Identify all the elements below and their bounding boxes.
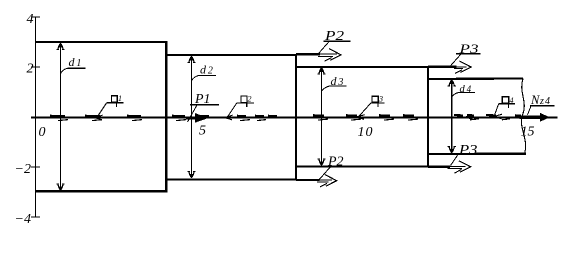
svg-text:−4: −4 bbox=[15, 212, 31, 227]
svg-text:4: 4 bbox=[27, 12, 34, 27]
svg-text:Nz4: Nz4 bbox=[530, 93, 551, 107]
svg-text:2: 2 bbox=[27, 62, 34, 77]
svg-text:5: 5 bbox=[199, 124, 206, 139]
svg-text:P3: P3 bbox=[458, 41, 479, 56]
svg-text:d2: d2 bbox=[200, 63, 214, 77]
svg-text:P2: P2 bbox=[327, 154, 343, 169]
svg-text:0: 0 bbox=[39, 125, 46, 140]
svg-text:P1: P1 bbox=[194, 92, 210, 107]
svg-text:1: 1 bbox=[118, 94, 122, 103]
svg-text:d1: d1 bbox=[69, 55, 83, 69]
svg-text:10: 10 bbox=[358, 125, 374, 140]
svg-text:15: 15 bbox=[521, 125, 535, 140]
svg-text:2: 2 bbox=[248, 94, 252, 103]
svg-text:3: 3 bbox=[378, 95, 383, 104]
svg-text:P3: P3 bbox=[458, 143, 478, 158]
svg-text:4: 4 bbox=[510, 96, 514, 105]
svg-text:d4: d4 bbox=[460, 84, 472, 95]
svg-text:P2: P2 bbox=[324, 29, 344, 44]
svg-text:−2: −2 bbox=[15, 162, 31, 177]
